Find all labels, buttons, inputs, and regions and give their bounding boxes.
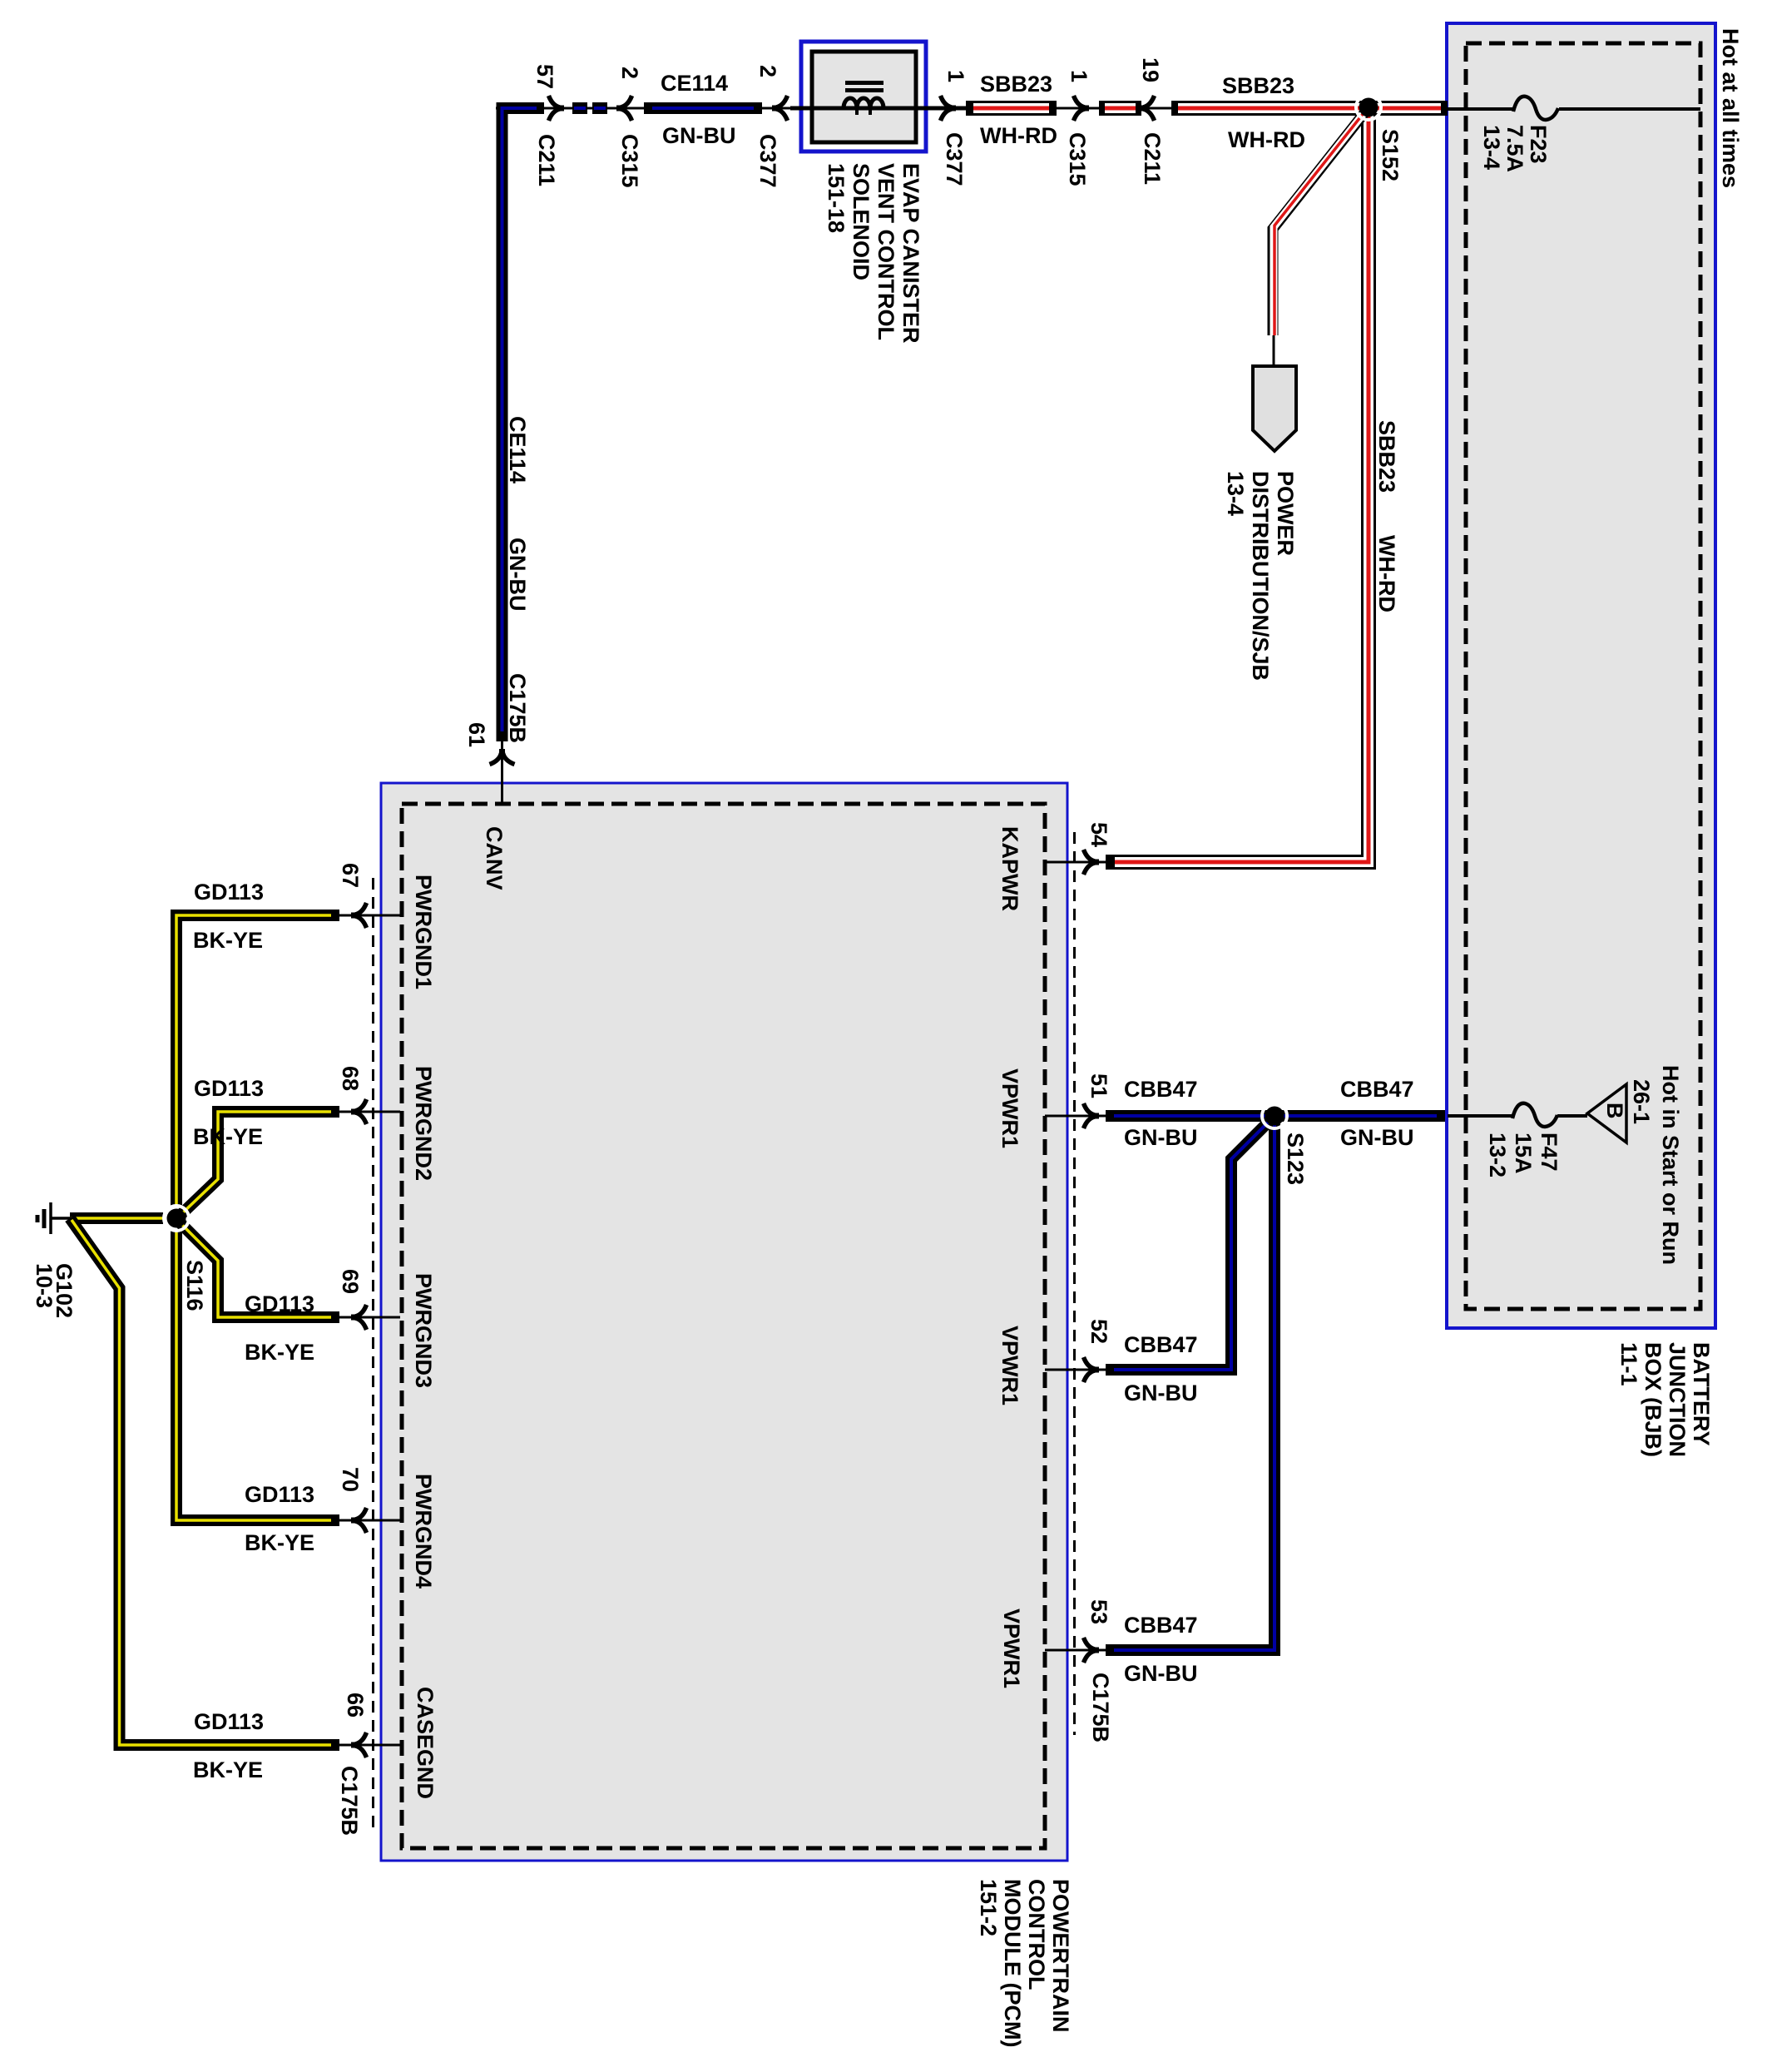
svg-text:CBB47: CBB47 [1124, 1613, 1198, 1638]
BJB inner dashed border [1466, 43, 1700, 1309]
wire thin stub PCM pin 66 [339, 1744, 400, 1747]
svg-text:PWRGND2: PWRGND2 [411, 1066, 436, 1181]
connector arrow C211 pin 19 [1139, 96, 1155, 121]
svg-text:SBB23: SBB23 [980, 72, 1052, 97]
svg-text:GD113: GD113 [194, 1709, 264, 1734]
svg-text:WH-RD: WH-RD [1374, 535, 1399, 612]
PCM left connector C175B dashed line [372, 878, 374, 1835]
svg-text:BK-YE: BK-YE [193, 1757, 263, 1782]
wire thin stub PCM pin 53 [1045, 1649, 1108, 1652]
splice S116 [164, 1206, 189, 1231]
svg-text:Hot at all times: Hot at all times [1718, 28, 1743, 188]
component label EVAP CANISTER VENT CONTROL SOLENOID 151-18 [824, 163, 923, 344]
svg-text:10-3: 10-3 [32, 1263, 57, 1308]
svg-text:VPWR1: VPWR1 [997, 1326, 1022, 1405]
connector arrow PCM pin 53 [1084, 1638, 1100, 1663]
svg-text:F47: F47 [1537, 1133, 1562, 1172]
connector arrow PCM pin 52 [1084, 1357, 1100, 1382]
svg-text:1: 1 [1067, 70, 1091, 82]
svg-text:JUNCTION: JUNCTION [1665, 1342, 1690, 1457]
svg-text:61: 61 [464, 722, 489, 747]
wire CE114 dashed segments between C211 and C315 [572, 102, 587, 114]
wire from fuse F47 to triangle B [1557, 1114, 1587, 1118]
PCM inner dashed border [402, 804, 1045, 1848]
wire GD113 BK-YE ground to S116 [70, 1212, 163, 1224]
wire GD113 BK-YE ground down to pin 66 CASEGND [70, 1218, 339, 1745]
svg-text:51: 51 [1086, 1073, 1111, 1098]
connector arrow PCM pin 69 [351, 1305, 367, 1330]
svg-text:CBB47: CBB47 [1124, 1332, 1198, 1357]
svg-text:WH-RD: WH-RD [1228, 127, 1305, 152]
connector arrow PCM pin 61 [490, 749, 515, 765]
wire thin stub PCM pin 61 CANV [501, 741, 503, 804]
svg-text:PWRGND3: PWRGND3 [411, 1273, 436, 1388]
svg-text:GN-BU: GN-BU [1124, 1661, 1198, 1686]
svg-text:C315: C315 [617, 134, 642, 188]
svg-text:54: 54 [1086, 822, 1111, 847]
svg-text:DISTRIBUTION/SJB: DISTRIBUTION/SJB [1248, 471, 1273, 681]
fuse F47 15A [1512, 1103, 1557, 1127]
svg-text:SBB23: SBB23 [1374, 420, 1399, 493]
wire from fuse F23 to right [1559, 107, 1700, 111]
solenoid coil symbol [790, 81, 966, 115]
svg-text:GD113: GD113 [245, 1482, 314, 1507]
svg-text:C377: C377 [942, 132, 967, 186]
svg-text:BK-YE: BK-YE [193, 928, 263, 953]
svg-text:67: 67 [338, 863, 363, 888]
svg-text:C211: C211 [534, 134, 559, 186]
wire inside BJB to fuse F47 [1448, 1114, 1514, 1118]
svg-text:VPWR1: VPWR1 [999, 1609, 1024, 1688]
battery junction box BJB outline [1447, 23, 1715, 1328]
wire SBB23 WH-RD C211 to S152 [1171, 101, 1365, 116]
svg-text:EVAP CANISTER: EVAP CANISTER [898, 163, 923, 344]
svg-text:SOLENOID: SOLENOID [849, 163, 874, 280]
svg-text:PWRGND4: PWRGND4 [411, 1474, 436, 1589]
svg-text:1: 1 [943, 70, 968, 82]
svg-text:Hot in Start or Run: Hot in Start or Run [1658, 1065, 1683, 1265]
EVAP canister vent control solenoid box [801, 42, 926, 151]
component label POWERTRAIN CONTROL MODULE (PCM) 151-2 [976, 1879, 1073, 2047]
svg-text:C175B: C175B [1088, 1673, 1113, 1742]
connector arrow C315 pin 2 [616, 96, 632, 121]
wire thin stub PCM pin 67 [339, 915, 400, 917]
svg-text:GD113: GD113 [194, 880, 264, 905]
wire GD113 BK-YE pin 68 to S116 [180, 1112, 339, 1216]
splice S123 [1262, 1103, 1287, 1128]
wire CBB47 GN-BU S123 branch to pin 53 [1106, 1122, 1275, 1650]
off-page arrow POWER DISTRIBUTION/SJB [1253, 366, 1296, 451]
svg-text:66: 66 [343, 1693, 368, 1718]
fuse label F47 15A 13-2 [1485, 1133, 1562, 1177]
connector arrow PCM pin 67 [351, 903, 367, 928]
PCM right connector C175B dashed line [1073, 832, 1076, 1735]
svg-text:CONTROL: CONTROL [1024, 1879, 1049, 1990]
svg-text:13-4: 13-4 [1223, 471, 1248, 516]
triangle B power feed symbol [1587, 1084, 1626, 1143]
wire thin stub PCM pin 68 [339, 1111, 400, 1113]
connector arrow PCM pin 68 [351, 1099, 367, 1124]
connector arrow PCM pin 70 [351, 1508, 367, 1533]
wire CBB47 GN-BU pin 51 to S123 to BJB [1106, 1110, 1445, 1122]
svg-text:CE114: CE114 [661, 71, 728, 96]
svg-text:MODULE (PCM): MODULE (PCM) [1000, 1879, 1025, 2047]
connector arrow C377 pin 1 [941, 96, 957, 121]
svg-text:BK-YE: BK-YE [245, 1530, 314, 1555]
svg-text:GN-BU: GN-BU [1340, 1125, 1414, 1150]
connector arrow C211 pin 57 [549, 96, 565, 121]
svg-text:KAPWR: KAPWR [997, 826, 1022, 911]
ground symbol G102 [37, 1202, 72, 1234]
connector arrow C315 pin 1 [1074, 96, 1090, 121]
off-page label POWER DISTRIBUTION/SJB 13-4 [1223, 471, 1298, 681]
connector arrow PCM pin 66 [351, 1732, 367, 1757]
svg-text:13-2: 13-2 [1485, 1133, 1510, 1177]
svg-text:C175B: C175B [505, 673, 530, 743]
svg-text:GN-BU: GN-BU [1124, 1381, 1198, 1405]
wire CE114 GN-BU (top horizontal + vertical to PCM pin 61) [502, 108, 545, 741]
svg-text:C315: C315 [1065, 132, 1090, 186]
fuse label F23 7.5A 13-4 [1479, 125, 1551, 172]
svg-text:C175B: C175B [337, 1766, 362, 1836]
svg-text:57: 57 [532, 64, 557, 89]
svg-text:GN-BU: GN-BU [1124, 1125, 1198, 1150]
wire thin stub PCM pin 51 [1045, 1115, 1108, 1118]
wire GD113 BK-YE S116 down to pin 70 [176, 1229, 339, 1520]
svg-text:BK-YE: BK-YE [245, 1340, 314, 1365]
component label BATTERY JUNCTION BOX (BJB) 11-1 [1616, 1342, 1714, 1457]
svg-text:CBB47: CBB47 [1340, 1077, 1414, 1102]
wire thin stub PCM pin 69 [339, 1316, 400, 1319]
svg-text:151-2: 151-2 [976, 1879, 1001, 1936]
svg-text:68: 68 [338, 1066, 363, 1091]
powertrain control module PCM outline [381, 783, 1067, 1861]
svg-text:POWER: POWER [1273, 471, 1298, 556]
svg-text:BOX (BJB): BOX (BJB) [1641, 1342, 1666, 1457]
svg-text:15A: 15A [1511, 1133, 1536, 1174]
connector arrow C377 pin 2 [772, 96, 788, 121]
svg-text:WH-RD: WH-RD [980, 123, 1057, 148]
wire SBB23 WH-RD S152 to BJB [1372, 101, 1448, 116]
svg-text:CASEGND: CASEGND [413, 1687, 438, 1799]
svg-text:BATTERY: BATTERY [1689, 1342, 1714, 1446]
svg-text:F23: F23 [1526, 125, 1551, 164]
svg-text:70: 70 [338, 1467, 363, 1492]
svg-text:PWRGND1: PWRGND1 [411, 875, 436, 989]
wire thin stub PCM pin 54 KAPWR [1045, 861, 1108, 864]
svg-text:53: 53 [1086, 1599, 1111, 1624]
wire SBB23 WH-RD diagonal branch from S152 to power distribution [1273, 110, 1367, 335]
svg-text:GD113: GD113 [194, 1076, 264, 1101]
svg-text:SBB23: SBB23 [1222, 73, 1294, 98]
solenoid inner box [812, 52, 916, 142]
svg-text:GD113: GD113 [245, 1291, 314, 1316]
svg-text:S116: S116 [182, 1260, 207, 1311]
fuse F23 7.5A [1513, 97, 1558, 120]
svg-text:S152: S152 [1378, 129, 1403, 181]
svg-text:CE114: CE114 [505, 416, 530, 483]
svg-text:13-4: 13-4 [1479, 125, 1504, 170]
wire CE114 GN-BU segment between C315 and C377 [644, 102, 762, 114]
svg-text:151-18: 151-18 [824, 163, 849, 233]
svg-text:CBB47: CBB47 [1124, 1077, 1198, 1102]
wire SBB23 WH-RD between C315 and C211 [1099, 101, 1141, 116]
svg-text:B: B [1602, 1103, 1627, 1119]
connector arrow PCM pin 54 [1084, 850, 1100, 875]
svg-text:GN-BU: GN-BU [505, 538, 530, 612]
wire thin stub PCM pin 52 [1045, 1369, 1108, 1371]
svg-text:CANV: CANV [482, 826, 507, 890]
wire CBB47 GN-BU S123 branch to pin 52 [1106, 1119, 1271, 1370]
svg-text:S123: S123 [1283, 1133, 1308, 1185]
svg-text:7.5A: 7.5A [1502, 125, 1527, 172]
svg-text:2: 2 [617, 67, 642, 79]
wire thin stub PCM pin 70 [339, 1519, 400, 1522]
svg-text:BK-YE: BK-YE [193, 1124, 263, 1149]
ground label G102 10-3 [32, 1263, 77, 1318]
wire thin lead into power distribution arrow [1273, 335, 1275, 366]
svg-text:C211: C211 [1140, 132, 1165, 185]
svg-text:GN-BU: GN-BU [662, 123, 736, 148]
wire: thin feed line under top run [496, 107, 1448, 110]
svg-text:69: 69 [338, 1269, 363, 1294]
connector arrow PCM pin 51 [1084, 1103, 1100, 1128]
svg-text:VENT CONTROL: VENT CONTROL [874, 163, 898, 340]
wire SBB23 WH-RD vertical from S152 and KAPWR horizontal to pin 54 [1106, 111, 1369, 862]
svg-text:POWERTRAIN: POWERTRAIN [1048, 1879, 1073, 2033]
wire SBB23 WH-RD solenoid to C377 [966, 101, 1057, 116]
svg-text:26-1: 26-1 [1629, 1079, 1654, 1124]
svg-text:19: 19 [1138, 57, 1163, 82]
svg-text:2: 2 [755, 65, 780, 77]
wire GD113 BK-YE S116 to pin 69 [180, 1222, 339, 1317]
svg-text:52: 52 [1086, 1319, 1111, 1344]
wire GD113 BK-YE S116 up to pin 67 [176, 915, 339, 1207]
wire inside BJB to fuse F23 [1448, 107, 1515, 111]
splice S152 [1356, 95, 1381, 120]
svg-text:11-1: 11-1 [1616, 1342, 1641, 1386]
svg-text:C377: C377 [755, 134, 780, 188]
svg-text:VPWR1: VPWR1 [997, 1068, 1022, 1148]
